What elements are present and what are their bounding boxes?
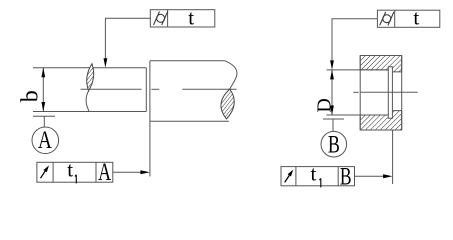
svg-text:A: A — [98, 158, 111, 186]
svg-text:D: D — [314, 98, 336, 112]
svg-text:b: b — [18, 90, 44, 102]
svg-text:t: t — [413, 6, 419, 30]
svg-text:A: A — [38, 126, 53, 154]
svg-text:t: t — [67, 157, 73, 181]
svg-text:t: t — [310, 162, 316, 186]
svg-text:B: B — [340, 163, 352, 191]
svg-text:t: t — [188, 5, 194, 29]
svg-text:B: B — [328, 130, 340, 158]
